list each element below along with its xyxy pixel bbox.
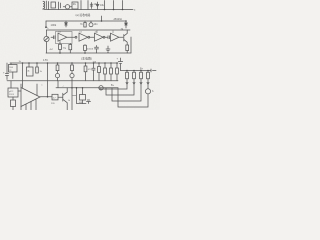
op-amp U2D (111, 33, 119, 41)
capacitor C5 (5, 63, 8, 80)
diode D4 (65, 21, 68, 27)
resistor R7 (84, 45, 87, 54)
resistor R1 (59, 2, 61, 10)
resistor R6 (69, 44, 72, 54)
resistor R3 (84, 21, 86, 27)
transistor circle Q4 (99, 86, 103, 90)
ground G2 (87, 100, 91, 104)
box R19 (52, 94, 58, 100)
op-amp U2C (95, 33, 104, 41)
wire (67, 36, 75, 38)
svg-text:100k: 100k (51, 23, 57, 27)
box U3 (10, 63, 12, 65)
wire stair D (118, 88, 148, 107)
svg-text:μPC: μPC (9, 91, 14, 93)
svg-text:4.5V: 4.5V (43, 59, 48, 62)
box R20 (82, 87, 84, 89)
wire vbus2 (77, 88, 87, 104)
resistor R5 (59, 42, 62, 54)
wire vbus1 (71, 81, 73, 110)
wire bus rise (57, 81, 59, 88)
op-amp U2B (79, 33, 88, 41)
svg-text:10n: 10n (94, 23, 99, 26)
wire stair A (100, 79, 127, 89)
transistor Q2 (58, 93, 63, 101)
capacitor C1 (51, 2, 56, 8)
wire ground rail C (7, 80, 118, 82)
resistor R12 (98, 62, 100, 64)
svg-text:AB123A: AB123A (114, 18, 123, 21)
wire feed (22, 62, 24, 64)
terminal L (45, 21, 47, 27)
transistor Q1 (123, 35, 125, 42)
op-amp U2A (58, 33, 67, 41)
transformer T1 (43, 1, 49, 10)
capacitor C4 (95, 46, 99, 53)
capacitor C2 (51, 36, 55, 39)
svg-text:1513: 1513 (9, 94, 15, 96)
wire rail C (10, 62, 118, 64)
pin top (36, 84, 38, 96)
wire stair B (106, 79, 134, 95)
resistor R18 (147, 70, 149, 72)
wire rail A2 (46, 20, 126, 22)
wire bottom rail B (46, 52, 131, 54)
terminal c (131, 9, 133, 11)
wire rail C2 (121, 70, 152, 72)
resistor R15 (126, 70, 128, 72)
capacitor C7 (93, 62, 95, 64)
wire stair C (112, 79, 141, 101)
crystal X1 (12, 97, 14, 100)
resistor R14b (116, 62, 118, 64)
transistor Q3 (147, 79, 149, 89)
diode D1 (65, 5, 69, 9)
box stage1 (56, 32, 73, 44)
capacitor C6 (85, 62, 87, 64)
resistor R10 + LED2 (71, 62, 73, 64)
resistor R13 (104, 62, 106, 64)
wire main rail A (44, 9, 131, 11)
resistor R4 (126, 45, 129, 53)
wire power stubs (97, 30, 113, 33)
buzzer B1 (89, 23, 93, 27)
wire rung (72, 95, 77, 97)
wire drop A3 (122, 1, 124, 10)
diode D5 (125, 20, 127, 22)
diode D3 (96, 2, 99, 10)
box U5 (10, 81, 12, 88)
resistor R16 (133, 70, 135, 72)
resistor R9 + LED1 (57, 62, 59, 64)
wire out (40, 96, 52, 98)
wire top rail B (47, 29, 131, 31)
ground G1 (106, 46, 110, 52)
wire box bottom (12, 72, 14, 79)
svg-text:40106: 40106 (87, 49, 94, 51)
capacitor C3 (105, 36, 110, 39)
pins (26, 99, 36, 110)
resistor R14 (110, 62, 112, 64)
diode D2 (90, 3, 93, 9)
terminal out (151, 69, 156, 72)
op-amp U6 (21, 88, 40, 107)
wire (90, 36, 94, 38)
wire loop (81, 1, 88, 10)
resistor R8 (36, 62, 38, 64)
wire left drop (46, 30, 48, 36)
resistor R17 (140, 70, 142, 72)
box U4 (28, 62, 30, 64)
svg-text:(主电路): (主电路) (81, 56, 92, 61)
svg-text:(a) 接收电路: (a) 接收电路 (76, 13, 91, 17)
microphone BM (44, 36, 49, 41)
wire drop A2 (113, 1, 115, 10)
wire right edge (130, 37, 132, 53)
diode arrows (126, 83, 149, 85)
wire (119, 36, 123, 38)
wire stub (101, 16, 103, 21)
wire drop A1 (104, 1, 106, 10)
wire drop long (47, 62, 49, 64)
box U1 (72, 2, 78, 9)
wire bus C (56, 87, 118, 89)
